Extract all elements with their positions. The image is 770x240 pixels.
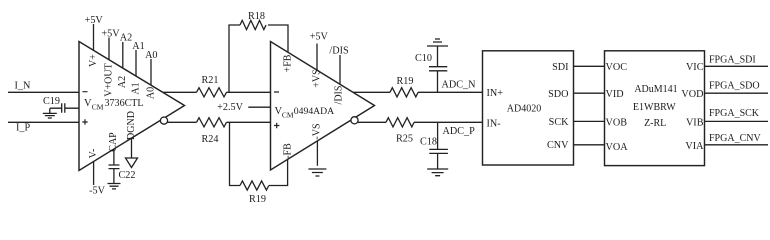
- svg-text:A1: A1: [130, 82, 141, 94]
- svg-text:C19: C19: [43, 96, 60, 107]
- svg-text:A2: A2: [117, 76, 128, 88]
- svg-text:R19: R19: [397, 76, 414, 87]
- svg-text:C10: C10: [415, 53, 432, 64]
- svg-text:/DIS: /DIS: [333, 86, 344, 105]
- svg-text:I_N: I_N: [15, 81, 31, 92]
- svg-text:SDI: SDI: [552, 62, 569, 73]
- svg-text:VOB: VOB: [606, 118, 628, 129]
- svg-text:A0: A0: [145, 50, 157, 61]
- svg-text:0494ADA: 0494ADA: [294, 106, 334, 117]
- svg-text:Z-RL: Z-RL: [644, 118, 666, 129]
- svg-text:VOD: VOD: [681, 89, 703, 100]
- svg-text:VIC: VIC: [686, 62, 704, 73]
- svg-text:V+OUT: V+OUT: [103, 63, 114, 96]
- svg-text:R24: R24: [202, 134, 219, 145]
- svg-text:R21: R21: [202, 75, 219, 86]
- svg-text:FPGA_CNV: FPGA_CNV: [709, 133, 761, 144]
- svg-text:+VS: +VS: [311, 69, 322, 87]
- svg-text:IN+: IN+: [487, 88, 504, 99]
- svg-text:-5V: -5V: [89, 186, 105, 197]
- svg-text:I_P: I_P: [16, 123, 30, 134]
- svg-text:R19: R19: [249, 194, 266, 205]
- svg-text:+5V: +5V: [101, 28, 120, 39]
- svg-text:V: V: [84, 98, 92, 109]
- svg-text:/DIS: /DIS: [329, 46, 349, 57]
- svg-text:AD4020: AD4020: [507, 103, 541, 114]
- svg-text:FPGA_SDI: FPGA_SDI: [709, 54, 756, 65]
- svg-text:FPGA_SDO: FPGA_SDO: [709, 80, 760, 91]
- svg-text:ADC_N: ADC_N: [442, 79, 477, 90]
- svg-text:ADuM141: ADuM141: [634, 84, 677, 95]
- svg-text:ADC_P: ADC_P: [443, 126, 476, 137]
- svg-text:VID: VID: [606, 89, 624, 100]
- svg-text:VIA: VIA: [685, 141, 704, 152]
- svg-text:+5V: +5V: [85, 15, 104, 26]
- svg-text:3736CTL: 3736CTL: [105, 98, 144, 109]
- svg-text:VOC: VOC: [606, 62, 628, 73]
- svg-text:+FB: +FB: [282, 54, 293, 72]
- svg-text:IN-: IN-: [487, 118, 502, 129]
- svg-text:R25: R25: [396, 134, 413, 145]
- svg-text:V+: V+: [88, 54, 99, 67]
- svg-text:A1: A1: [132, 41, 144, 52]
- svg-text:VOA: VOA: [606, 142, 629, 153]
- svg-text:C18: C18: [420, 137, 437, 148]
- svg-text:-VS: -VS: [312, 123, 323, 139]
- svg-text:V-: V-: [88, 149, 99, 159]
- svg-text:SDO: SDO: [548, 89, 568, 100]
- svg-text:A2: A2: [120, 33, 132, 44]
- svg-text:VIB: VIB: [686, 118, 704, 129]
- svg-text:CAP: CAP: [108, 132, 119, 152]
- svg-text:E1WBRW: E1WBRW: [633, 102, 676, 113]
- svg-text:C22: C22: [119, 170, 136, 181]
- svg-text:R18: R18: [248, 11, 265, 22]
- svg-text:FPGA_SCK: FPGA_SCK: [709, 108, 760, 119]
- svg-text:+5V: +5V: [310, 32, 329, 43]
- svg-text:-FB: -FB: [282, 143, 293, 159]
- svg-text:+2.5V: +2.5V: [217, 102, 243, 113]
- svg-text:SCK: SCK: [549, 117, 569, 128]
- svg-text:DGND: DGND: [126, 111, 137, 140]
- svg-text:CM: CM: [282, 110, 294, 119]
- svg-text:CNV: CNV: [547, 140, 569, 151]
- svg-text:CM: CM: [92, 103, 104, 112]
- svg-text:A0: A0: [145, 87, 156, 99]
